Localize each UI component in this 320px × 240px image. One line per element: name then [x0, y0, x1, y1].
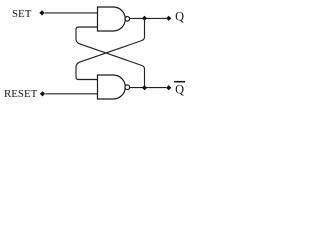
- nand gate U2 (bottom): [98, 75, 126, 99]
- terminal node RESET: [40, 91, 45, 96]
- svg-text:Q: Q: [175, 9, 184, 23]
- terminal node Q-bar: [166, 85, 171, 90]
- wire SET to gate U1 input 1: [45, 12, 98, 14]
- svg-text:SET: SET: [12, 8, 32, 20]
- inverting bubble U1: [125, 17, 130, 22]
- wire B: U2 output to U1 lower input (cross coupling): [76, 27, 145, 88]
- terminal node SET: [39, 10, 44, 15]
- junction node at U1 output: [142, 16, 147, 21]
- nand gate U1 (top): [98, 7, 126, 31]
- junction node at U2 output: [142, 85, 147, 90]
- svg-text:Q: Q: [175, 83, 184, 97]
- svg-text:RESET: RESET: [4, 88, 38, 100]
- terminal node Q: [166, 16, 171, 21]
- wire U2 output to Q-bar: [130, 87, 166, 89]
- wire RESET to gate U2 input 2: [45, 93, 97, 95]
- inverting bubble U2: [125, 85, 130, 90]
- wire U1 output to Q: [130, 17, 166, 19]
- wire A: U1 output to U2 upper input (cross coupling): [76, 18, 145, 79]
